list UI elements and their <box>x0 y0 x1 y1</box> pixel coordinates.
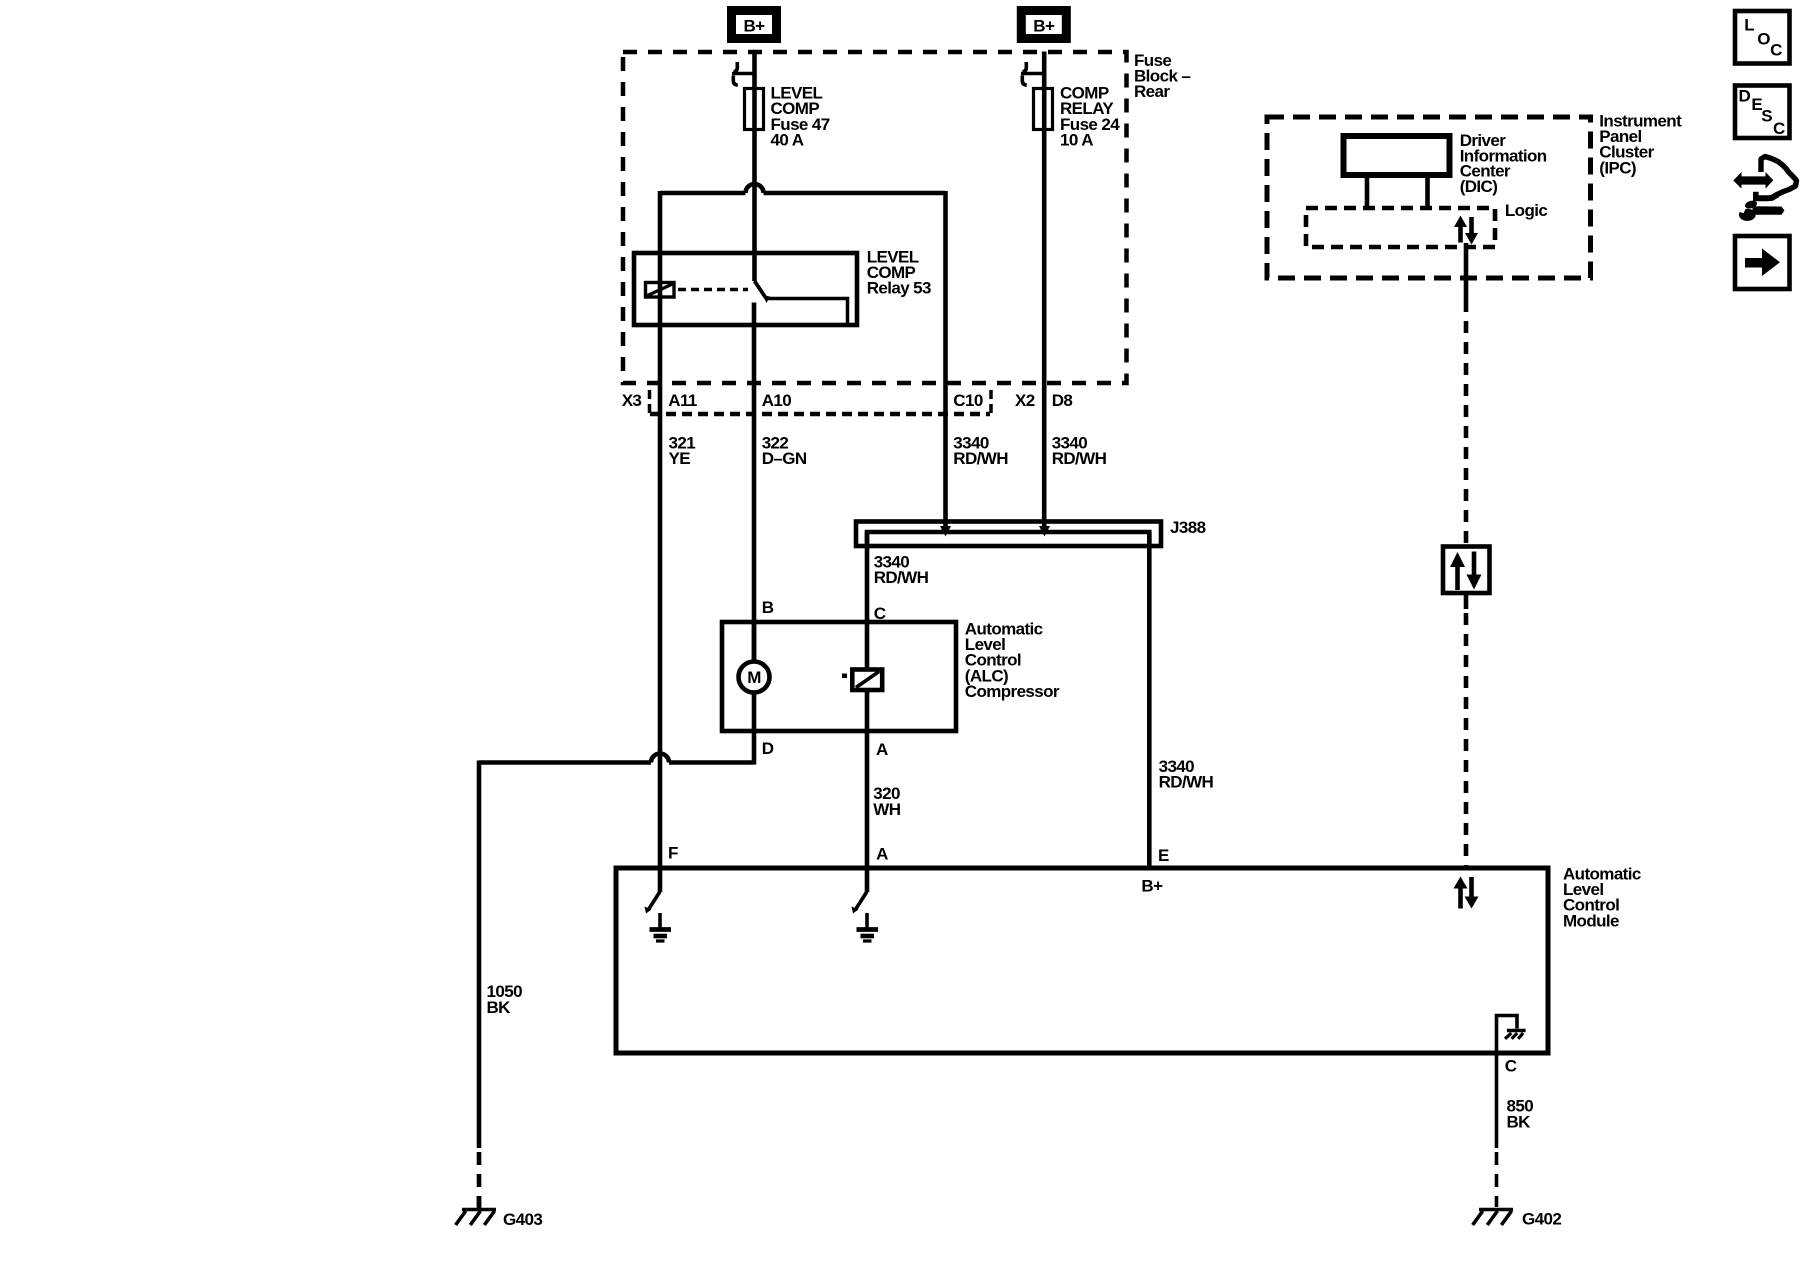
relay switch blade <box>755 281 771 303</box>
module internal ground near C pin <box>1497 1016 1526 1054</box>
fuse 47 (LEVEL COMP Fuse 47 40 A) <box>745 89 764 130</box>
DIC left leg <box>1365 178 1370 206</box>
connector separator dash X3|A11 <box>648 390 652 416</box>
compressor motor M <box>739 662 770 693</box>
relay coil <box>646 283 675 298</box>
svg-text:C: C <box>1773 119 1785 138</box>
svg-text:C10: C10 <box>953 391 983 410</box>
nav icon forward arrow box <box>1735 236 1790 289</box>
svg-text:Logic: Logic <box>1505 201 1547 220</box>
serial data wire solid below logic <box>1464 243 1469 300</box>
module F switch to ground <box>645 868 672 941</box>
Driver Information Center box <box>1344 136 1450 175</box>
svg-text:D: D <box>762 739 774 758</box>
wire E from J388 to module (3340 RD/WH) <box>1147 532 1152 868</box>
relay switch contact wire <box>767 299 848 326</box>
wire A10 vertical (322 D-GN) <box>752 303 757 663</box>
ground G402 <box>1473 1210 1513 1226</box>
wire 850 BK below module C pin <box>1495 1053 1499 1148</box>
logic serial arrows <box>1454 216 1478 245</box>
svg-text:O: O <box>1757 30 1770 49</box>
wire motor D side to bottom <box>752 693 757 765</box>
svg-text:D: D <box>1739 87 1751 106</box>
connector separator dash C10|X2 <box>989 390 993 416</box>
svg-text:B: B <box>762 598 774 617</box>
svg-text:C: C <box>1770 41 1782 60</box>
wire relay feed horizontal with hop over fuse-47 wire <box>660 184 946 193</box>
svg-text:B+: B+ <box>1033 17 1055 36</box>
serial data wire dashed to module <box>1464 613 1469 866</box>
svg-text:A: A <box>876 740 888 759</box>
svg-text:L: L <box>1744 16 1754 35</box>
svg-text:D8: D8 <box>1052 391 1073 410</box>
B+ power symbol left <box>732 11 777 39</box>
B+ power symbol right <box>1021 11 1066 39</box>
serial data arrow box <box>1443 547 1490 594</box>
svg-text:320WH: 320WH <box>873 784 900 819</box>
splice pack J388 outer box <box>856 522 1161 547</box>
svg-text:S: S <box>1761 107 1772 126</box>
svg-text:J388: J388 <box>1170 518 1206 537</box>
svg-text:B+: B+ <box>743 17 765 36</box>
wire motor B side inside box <box>752 622 757 662</box>
wire pressure switch to A pin <box>865 690 870 868</box>
nav icon LOC box <box>1735 11 1790 64</box>
svg-text:A11: A11 <box>668 391 697 410</box>
DIC right leg <box>1425 178 1430 209</box>
relay actuator dashed link <box>678 288 748 292</box>
ground G403 <box>456 1196 496 1225</box>
wire A11 vertical (321 YE) <box>658 191 663 868</box>
svg-text:C: C <box>1505 1057 1517 1076</box>
wire 1050 BK dashed tail <box>477 1152 482 1207</box>
svg-text:B+: B+ <box>1141 877 1163 896</box>
svg-text:A: A <box>876 845 888 864</box>
ALC compressor box <box>722 622 956 731</box>
fuse 47 holder clip <box>732 62 757 85</box>
splice pack J388 inner bar <box>867 532 1149 545</box>
svg-text:X2: X2 <box>1015 391 1035 410</box>
fuse 24 (COMP RELAY Fuse 24 10 A) <box>1034 89 1053 130</box>
compressor pressure switch <box>842 670 882 691</box>
serial data wire dashed to arrow box <box>1464 300 1469 544</box>
wire from B+ right to fuse 24 <box>1042 52 1047 534</box>
nav icon DESC box <box>1735 86 1790 139</box>
svg-text:E: E <box>1158 846 1169 865</box>
arrowhead C10 wire into J388 <box>940 526 951 537</box>
wire D horizontal with hop over A11 wire <box>479 754 754 763</box>
svg-text:X3: X3 <box>622 391 642 410</box>
fuse 24 holder clip <box>1021 62 1046 85</box>
connector row bottom dashed line <box>650 412 990 417</box>
svg-text:G402: G402 <box>1522 1210 1561 1229</box>
Instrument Panel Cluster dashed box <box>1267 117 1591 278</box>
wire C from J388 to compressor (3340 RD/WH) <box>865 532 870 668</box>
wire from B+ left to fuse 47 <box>752 52 757 282</box>
svg-text:G403: G403 <box>503 1210 542 1229</box>
nav icon diagnostic (double arrow, outline, wrench) <box>1733 157 1796 221</box>
svg-text:M: M <box>747 668 761 687</box>
wire 1050 BK vertical solid <box>477 761 482 1149</box>
arrowhead D8 wire into J388 <box>1039 526 1050 537</box>
Fuse Block - Rear dashed box <box>623 52 1127 383</box>
svg-text:F: F <box>668 844 678 863</box>
svg-text:850BK: 850BK <box>1507 1097 1534 1132</box>
serial data wire stub below arrow box <box>1464 595 1469 609</box>
svg-text:A10: A10 <box>762 391 792 410</box>
Logic dashed box <box>1306 208 1495 247</box>
relay 53 box <box>634 253 857 325</box>
ALC module box <box>616 868 1548 1053</box>
module serial data arrows <box>1454 877 1479 909</box>
wire C10 vertical (3340 RD/WH) <box>943 191 948 532</box>
module A switch to ground <box>852 868 879 941</box>
